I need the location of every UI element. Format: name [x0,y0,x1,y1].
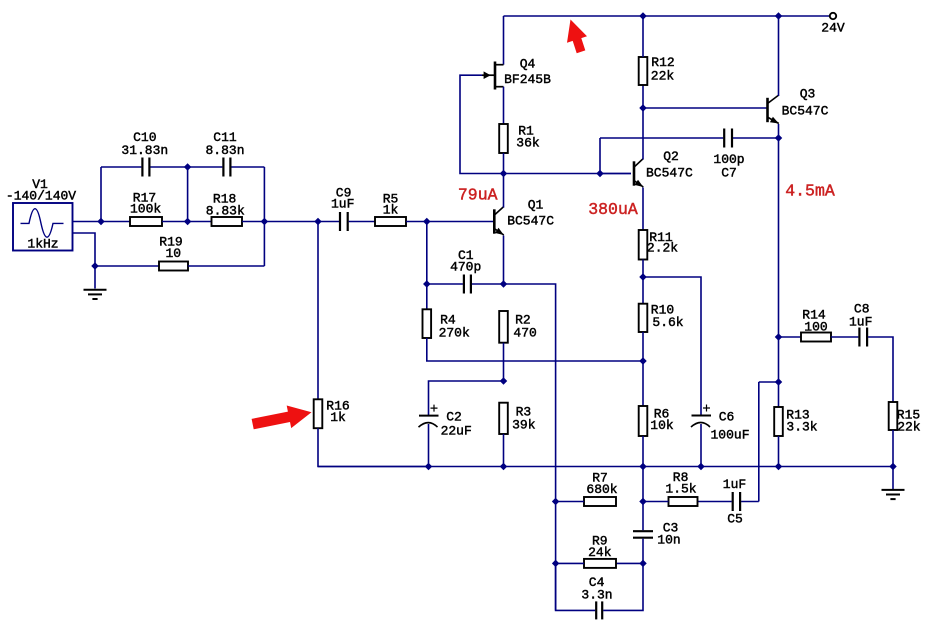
capacitor C1 [463,275,465,294]
resistor R15 [889,402,898,430]
capacitor C2 electrolytic [419,415,439,417]
wire Q2 base node up [599,138,601,174]
wire mid node vertical [187,167,189,222]
svg-text:680k: 680k [586,482,617,497]
wire R12 top [642,16,644,57]
resistor R2 [499,311,508,343]
svg-text:1.5k: 1.5k [665,482,696,497]
wire Q4 source to R1 [503,87,505,124]
wire R1 bottom [503,153,505,174]
svg-text:4.5mA: 4.5mA [785,181,835,200]
wire C10 row left segment [101,166,141,168]
svg-text:C6: C6 [719,410,735,425]
svg-text:BC547C: BC547C [646,166,693,181]
svg-text:8.83n: 8.83n [205,143,244,158]
svg-text:10n: 10n [657,533,680,548]
wire C11 to right corner [231,166,264,168]
svg-text:1kHz: 1kHz [27,237,58,252]
wire Q4 drain [503,16,505,65]
junction Q3 emitter / C7 node [775,135,781,141]
junction R10/R6 node [640,358,646,364]
resistor R19 [159,262,188,271]
wire Q1 base down to C1 [426,222,428,310]
junction R2/R3 node [500,378,506,384]
junction R3 bottom node [500,463,506,469]
junction node A [98,218,104,224]
svg-text:3.3n: 3.3n [581,588,612,603]
capacitor C11 [222,158,224,177]
wire C3 leads [642,502,644,531]
junction right-net node [261,218,267,224]
wire R14 row left [779,336,802,338]
svg-text:1k: 1k [330,410,346,425]
wire Q2 base stub [600,173,631,175]
wire C5 branch horizontal [759,381,779,383]
wire R16 top [317,222,319,400]
wire R2/R3 node to C2 [429,381,504,415]
svg-text:1k: 1k [383,202,399,217]
junction C6 bottom node [698,463,704,469]
wire R8 to C5 [698,501,732,503]
junction R9 right node [640,560,646,566]
wire C8 to R15 [868,337,893,402]
transistor Q1 BC547C [493,209,496,233]
junction R7 left node [553,498,559,504]
svg-text:36k: 36k [516,135,540,150]
wire Q2 emitter down to R11 [642,188,644,231]
transistor Q3 BC547C [766,98,769,122]
wire Q1 collector up [503,174,505,208]
svg-text:39k: 39k [512,418,536,433]
wire Q2 collector up [642,108,644,160]
capacitor C10 [141,158,143,177]
resistor R14 [801,333,831,342]
svg-text:Q3: Q3 [800,87,816,102]
junction R12 bottom / Q3 base node [640,105,646,111]
wire V1 plus output to node A [73,221,131,223]
junction R6 bottom node [640,463,646,469]
wire Q4 gate loop [460,75,631,173]
junction C3 top node [640,498,646,504]
capacitor C4 [595,601,597,619]
wire R19 to right-net corner [188,265,264,267]
junction C10/C11 top node [185,164,191,170]
junction R9 left node [553,560,559,566]
transistor Q4 JFET BF245B [494,62,497,90]
wire R15 bottom [892,430,894,467]
wire C2 bottom [428,424,430,467]
svg-text:3.3k: 3.3k [786,420,817,435]
wire V1 minus terminal [73,233,96,289]
svg-text:C7: C7 [721,166,737,181]
junction Q1 base node [424,218,430,224]
svg-text:C5: C5 [727,512,743,527]
capacitor C9 [339,212,341,231]
svg-text:22k: 22k [897,420,921,435]
resistor R4 [423,309,432,338]
junction R17/R18 node [185,218,191,224]
wire Q1 emitter down [503,236,505,285]
wire R9 right [616,562,643,564]
svg-text:BC547C: BC547C [507,214,554,229]
resistor R17 [130,217,162,226]
red arrow pointing at R16 [252,406,312,430]
junction R11/R10 node [640,274,646,280]
resistor R5 [375,217,406,226]
wire bottom ground rail [318,466,893,468]
svg-text:2.2k: 2.2k [647,241,678,256]
svg-text:79uA: 79uA [458,186,498,205]
junction Q2 base node [597,170,603,176]
wire C4 row left [556,563,596,610]
resistor R7 [584,497,616,506]
svg-text:8.83k: 8.83k [206,204,245,219]
wire R6 bottom [642,436,644,467]
resistor R1 [499,124,508,153]
wire C5 right stub [741,501,759,503]
capacitor C7 [723,129,725,148]
wire R3 bottom [503,434,505,467]
svg-text:Q1: Q1 [528,198,544,213]
junction C5 branch node [775,379,781,385]
svg-text:5.6k: 5.6k [652,315,683,330]
wire R11 bottom [642,260,644,278]
wire R10 bottom [642,332,644,361]
wire right-net vertical [263,167,265,266]
wire R17 to R18 [162,221,212,223]
wire top supply rail [504,15,831,17]
svg-text:270k: 270k [439,326,470,341]
svg-text:470: 470 [513,326,536,341]
wire R12 bottom [642,85,644,108]
wire R11 node to C6 branch [643,277,701,415]
svg-text:C2: C2 [446,410,462,425]
junction Q1 emitter / C1 node [500,281,506,287]
wire R13 bottom [778,436,780,467]
resistor R13 [774,407,783,436]
resistor R8 [669,497,698,506]
junction R13 bottom node [775,463,781,469]
junction C9/R16 node [315,218,321,224]
resistor R9 [584,559,616,568]
wire R4 bottom to R10 node [427,338,643,361]
svg-text:1uF: 1uF [331,197,354,212]
junction C1 left node [424,281,430,287]
red arrow pointing at supply rail [567,20,587,54]
wire Q3 collector up [778,16,780,96]
svg-text:24k: 24k [588,545,612,560]
resistor R18 [212,217,243,226]
svg-text:Q4: Q4 [520,56,536,71]
svg-text:10k: 10k [650,418,674,433]
wire R19 row left [95,265,159,267]
capacitor C3 [633,530,653,532]
junction Q3 collector top node [775,13,781,19]
wire C6 bottom [700,424,702,467]
resistor R16 [314,399,323,428]
wire R18 to C9 node [242,221,339,223]
wire R6 top [642,361,644,406]
svg-text:1uF: 1uF [723,477,746,492]
wire C5 branch vertical [758,382,760,502]
wire Q3 emitter down [778,124,780,407]
wire C1 left stub [427,283,463,285]
ground symbol right [892,467,894,490]
svg-text:-140/140V: -140/140V [6,189,76,204]
junction V1 minus / R19 node [92,263,98,269]
svg-text:BF245B: BF245B [504,72,551,87]
svg-text:470p: 470p [450,260,481,275]
svg-text:Q2: Q2 [663,149,679,164]
wire C10 to C11 [150,166,222,168]
wire R2 bottom [503,343,505,381]
svg-text:24V: 24V [821,21,845,36]
voltage source V1 box [13,203,73,251]
wire R7 left [556,501,584,503]
transistor Q2 BC547C [633,161,636,185]
voltage source V1 sine waveform [21,209,64,238]
junction ground node right [890,463,896,469]
ground symbol under V1 [84,289,107,291]
wire node A up to C10 row [100,167,102,222]
junction C2 bottom node [425,463,431,469]
capacitor C6 electrolytic [692,415,712,417]
svg-text:BC547C: BC547C [782,104,829,119]
wire C9 to R5 [349,221,375,223]
wire C7 to Q3 emitter [733,137,779,139]
wire R16 bottom to ground rail [318,428,429,466]
resistor R6 [639,406,648,436]
wire C1 right to R7 branch [472,284,556,610]
svg-text:31.83n: 31.83n [121,143,168,158]
svg-text:1uF: 1uF [849,314,872,329]
wire main vertical to R7 row [642,467,644,502]
junction R1/Q1 collector node [500,170,506,176]
resistor R3 [499,403,508,434]
svg-text:22uF: 22uF [441,423,472,438]
svg-text:22k: 22k [651,68,675,83]
svg-text:380uA: 380uA [588,200,638,219]
capacitor C8 [858,328,860,347]
resistor R11 [639,230,648,260]
terminal 24V [830,13,836,19]
svg-text:100: 100 [804,319,827,334]
svg-text:100uF: 100uF [710,427,749,442]
wire Q3 base [643,107,768,109]
wire R10 top [642,277,644,304]
svg-text:10: 10 [165,246,181,261]
junction R14 node [775,334,781,340]
wire R14 to C8 [831,336,858,338]
svg-text:100k: 100k [130,202,161,217]
resistor R10 [639,304,648,332]
wire R9 left [556,562,584,564]
capacitor C5 [732,492,734,511]
junction R12 top node [640,13,646,19]
wire R5 to Q1 base [406,221,494,223]
wire R7 node to R8 [643,501,669,503]
resistor R12 [639,57,648,85]
wire C7 row left [600,137,723,139]
wire C4 row right [603,563,643,610]
